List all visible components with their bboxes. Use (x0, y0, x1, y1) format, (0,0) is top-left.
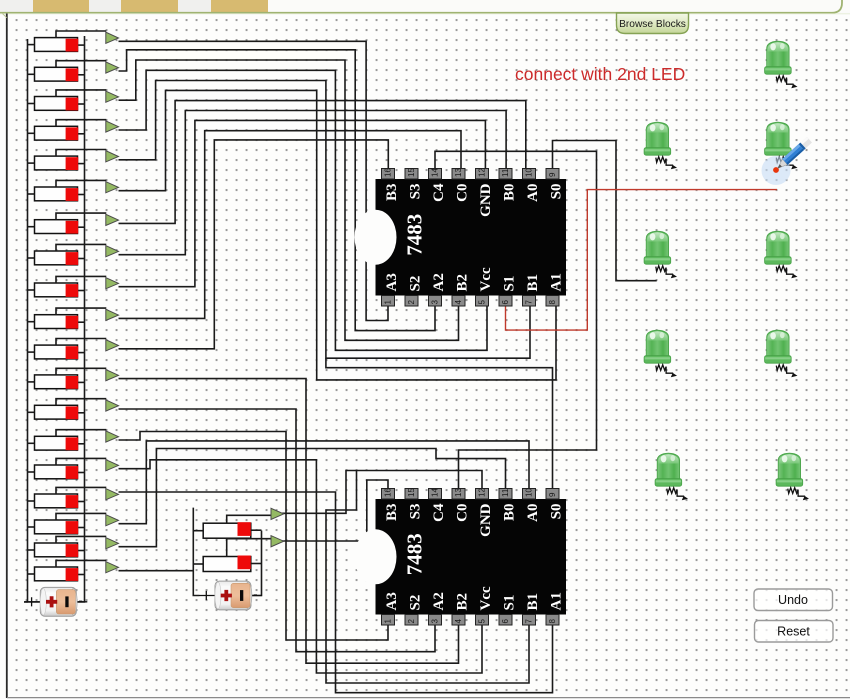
switch SW3 (28, 90, 119, 111)
svg-text:S2: S2 (408, 595, 424, 611)
wire W28 (281, 480, 389, 541)
svg-text:B2: B2 (455, 274, 471, 292)
canvas bottom border (7, 697, 850, 699)
canvas left border (6, 14, 8, 699)
wire W29 (435, 151, 597, 488)
svg-text:2: 2 (407, 300, 416, 305)
switch SW13 (28, 399, 119, 420)
svg-text:10: 10 (525, 168, 534, 177)
wire W22 (119, 441, 530, 524)
svg-text:Browse Blocks: Browse Blocks (619, 19, 686, 30)
wire W20 (119, 492, 553, 693)
LED D1 (765, 41, 798, 88)
svg-text:B1: B1 (525, 274, 541, 292)
battery B2 (199, 581, 262, 610)
svg-text:S2: S2 (408, 276, 424, 292)
switch SW8 (28, 244, 119, 265)
svg-text:7: 7 (525, 619, 534, 624)
wire W15 (119, 140, 389, 349)
triangle buffer A (271, 508, 284, 519)
switch SW18 (28, 536, 119, 557)
svg-text:C0: C0 (455, 504, 471, 522)
switch SW16 (28, 487, 119, 508)
wire W23 (119, 449, 506, 547)
wire W7 (119, 70, 488, 350)
switch SW10 (28, 308, 119, 329)
svg-text:10: 10 (525, 488, 534, 497)
wire W3 (77, 36, 85, 602)
svg-text:S1: S1 (502, 595, 518, 611)
IC U2 7483 (376, 499, 567, 615)
LED D7 (765, 330, 798, 377)
svg-text:Undo: Undo (778, 593, 808, 607)
svg-text:A2: A2 (431, 592, 447, 610)
svg-text:B3: B3 (384, 184, 400, 202)
switch SW9 (28, 276, 119, 297)
toolbar tab 2 (121, 0, 178, 13)
wire W10 (326, 358, 553, 488)
switch SW1 (28, 31, 119, 52)
svg-text:S0: S0 (549, 504, 565, 520)
svg-text:13: 13 (454, 488, 463, 497)
svg-text:B2: B2 (455, 593, 471, 611)
wire W8 (119, 81, 531, 359)
svg-text:5: 5 (478, 619, 487, 624)
toolbar tab 3 (211, 0, 268, 13)
switch SW19 (28, 560, 119, 581)
svg-text:13: 13 (454, 168, 463, 177)
svg-text:14: 14 (431, 488, 440, 497)
svg-text:4: 4 (454, 619, 463, 624)
switch SW14 (28, 430, 119, 451)
svg-text:A1: A1 (549, 273, 565, 291)
LED D9 (776, 453, 809, 500)
svg-text:7483: 7483 (403, 533, 427, 575)
svg-text:C4: C4 (431, 503, 447, 522)
svg-text:Vcc: Vcc (478, 586, 494, 610)
svg-text:16: 16 (384, 488, 393, 497)
svg-text:7: 7 (525, 300, 534, 305)
wire W12 (119, 111, 507, 255)
wire W4 (119, 41, 389, 320)
LED D6 (644, 330, 677, 377)
LED D3 (765, 122, 798, 169)
svg-text:12: 12 (478, 488, 487, 497)
svg-text:9: 9 (548, 172, 557, 177)
svg-text:2: 2 (407, 619, 416, 624)
switch SW11 (28, 339, 119, 360)
svg-text:A2: A2 (431, 273, 447, 291)
svg-text:B1: B1 (525, 593, 541, 611)
svg-text:12: 12 (478, 168, 487, 177)
LED D2 (644, 122, 677, 169)
wire W11 (119, 101, 526, 224)
svg-text:3: 3 (431, 619, 440, 624)
svg-text:8: 8 (548, 619, 557, 624)
battery B1 (24, 587, 87, 616)
svg-text:11: 11 (501, 488, 510, 497)
svg-text:A0: A0 (525, 504, 541, 522)
wire W1 (28, 39, 41, 602)
switch SW2 (28, 61, 119, 82)
svg-text:C4: C4 (431, 183, 447, 202)
svg-text:1: 1 (384, 619, 393, 624)
svg-text:A3: A3 (384, 273, 400, 291)
wire W6 (119, 60, 459, 340)
button Undo (754, 589, 833, 611)
svg-text:A0: A0 (525, 184, 541, 202)
svg-text:S0: S0 (549, 184, 565, 200)
svg-text:Vcc: Vcc (478, 267, 494, 291)
svg-text:9: 9 (548, 492, 557, 497)
wire W9 (119, 90, 557, 380)
red wire S1(U1)-to-LED (506, 190, 778, 331)
wire W2 (24, 601, 28, 603)
svg-text:Reset: Reset (777, 625, 810, 639)
wire W24 (119, 570, 194, 572)
switch SW5 (28, 150, 119, 171)
svg-text:15: 15 (407, 168, 416, 177)
svg-text:15: 15 (407, 488, 416, 497)
LED D8 (655, 453, 688, 500)
svg-text:B3: B3 (384, 504, 400, 522)
svg-text:4: 4 (454, 300, 463, 305)
wire W27 (281, 471, 483, 514)
svg-text:B0: B0 (502, 504, 518, 522)
switch SW12 (28, 368, 119, 389)
svg-text:A3: A3 (384, 592, 400, 610)
wire W30 (553, 141, 657, 281)
svg-text:GND: GND (478, 183, 494, 217)
svg-text:GND: GND (478, 503, 494, 537)
svg-text:B0: B0 (502, 184, 518, 202)
switch SWA (193, 530, 203, 532)
LED D4 (644, 231, 677, 278)
wire W5 (119, 50, 436, 331)
wire W26 (251, 531, 262, 596)
button Reset (755, 621, 834, 643)
svg-text:5: 5 (478, 300, 487, 305)
pencil cursor (762, 156, 791, 185)
wire W14 (119, 131, 462, 319)
IC U1 7483 (376, 179, 567, 296)
toolbar tab 1 (33, 0, 89, 13)
svg-text:14: 14 (431, 168, 440, 177)
svg-text:8: 8 (548, 300, 557, 305)
wire W17 (119, 409, 436, 652)
panel top edge (0, 0, 842, 13)
switch SW7 (28, 213, 119, 234)
svg-text:S3: S3 (408, 184, 424, 200)
switch SW15 (28, 458, 119, 479)
wire W13 (119, 120, 486, 286)
svg-text:6: 6 (501, 300, 510, 305)
svg-text:11: 11 (501, 168, 510, 177)
wire W18 (119, 432, 389, 641)
wire W25 (193, 508, 199, 596)
svg-text:S3: S3 (408, 504, 424, 520)
svg-text:connect with 2nd LED: connect with 2nd LED (515, 64, 685, 84)
svg-text:1: 1 (384, 300, 393, 305)
triangle buffer B (271, 536, 284, 547)
switch SW4 (28, 120, 119, 141)
svg-text:3: 3 (431, 300, 440, 305)
LED D5 (765, 231, 798, 278)
wire W19 (119, 460, 483, 673)
switch SW6 (28, 180, 119, 201)
svg-text:S1: S1 (502, 276, 518, 292)
svg-text:C0: C0 (455, 184, 471, 202)
button Browse Blocks (617, 13, 689, 34)
svg-text:16: 16 (384, 168, 393, 177)
svg-text:6: 6 (501, 619, 510, 624)
switch SWB (193, 563, 203, 565)
svg-text:A1: A1 (549, 592, 565, 610)
wire W16 (119, 379, 459, 664)
wire W21 (326, 471, 529, 684)
svg-text:7483: 7483 (403, 214, 427, 256)
switch SW17 (28, 513, 119, 534)
